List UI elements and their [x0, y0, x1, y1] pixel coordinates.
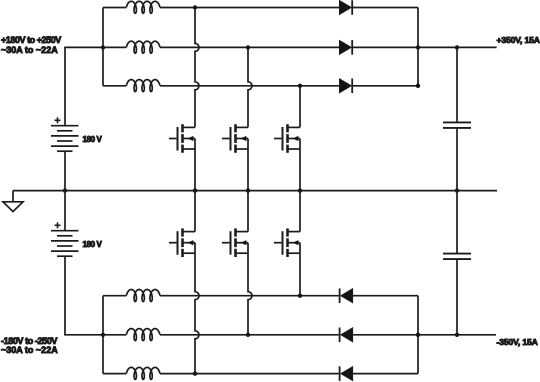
wire Q2 source to ground rail [247, 149, 249, 191]
wire diode D6 to -output bus [353, 373, 418, 375]
diode D4 [340, 288, 353, 303]
svg-text:~30A to ~22A: ~30A to ~22A [1, 45, 58, 55]
node switch column 3 / row 4 junction [298, 294, 302, 298]
transistor Q2 [222, 124, 248, 153]
battery B2 [51, 222, 79, 256]
wire ground rail to capacitor C2 [456, 191, 458, 254]
node switch column 1 / row 1 junction [193, 5, 197, 9]
wire Q3 source to ground rail [299, 149, 301, 191]
wire capacitor C2 to -rail [456, 259, 458, 335]
inductor L1 [126, 1, 159, 13]
wire diode D1 to output bus [352, 7, 418, 9]
node switch column 2 / row 5 junction [246, 333, 250, 337]
wire row 5 bus to inductor L5 [103, 334, 126, 336]
wire diode D3 to output bus [352, 85, 418, 87]
wire Q4 source drop (hops rows 4,5) [195, 253, 199, 373]
wire inductor L1 to diode D1 [160, 7, 340, 9]
wire ground rail to Q5 drain [247, 191, 249, 232]
wire inductor L4 to diode D4 [160, 295, 339, 297]
wire ground rail to Q4 drain [194, 191, 196, 232]
node bottom input bus / feed junction [101, 333, 105, 337]
wire diode D5 to -output bus [353, 334, 418, 336]
node +output bus row 3 junction [416, 84, 420, 88]
wire ground rail to battery B2 positive [64, 191, 66, 231]
wire row 4 bus to inductor L4 [103, 295, 126, 297]
wire left input bus (bottom) [102, 296, 104, 374]
wire -350V output lead [418, 334, 496, 336]
node switch column 3 / row 3 junction [298, 84, 302, 88]
wire inductor L5 to diode D5 [160, 334, 339, 336]
inductor L3 [126, 80, 159, 92]
inductor L4 [126, 290, 159, 302]
node -output bus row 5 junction [416, 333, 420, 337]
wire +rail to capacitor C1 [456, 47, 458, 122]
wire row 1 bus to inductor L1 [103, 7, 126, 9]
capacitor C2 [443, 254, 471, 260]
svg-text:+350V, 15A: +350V, 15A [497, 35, 540, 45]
node input bus / feed junction [101, 45, 105, 49]
diode D2 [340, 40, 353, 55]
node Q1 source on ground rail [193, 188, 197, 192]
node capacitor tap on ground rail [455, 188, 459, 192]
wire -output bus (vertical) [417, 296, 419, 374]
diode D3 [340, 79, 353, 94]
wire capacitor C1 to ground rail [456, 128, 458, 191]
wire inductor L6 to diode D6 [160, 373, 339, 375]
wire ground rail [13, 190, 497, 192]
wire left input bus (top) [102, 8, 104, 86]
wire battery B1 negative to ground rail [64, 151, 66, 190]
battery B1 [51, 117, 79, 151]
wire battery B2 negative to bottom bus [65, 256, 103, 335]
node Q3 source on ground rail [298, 188, 302, 192]
node Q2 source on ground rail [246, 188, 250, 192]
ground [12, 191, 14, 202]
transistor Q6 [274, 228, 300, 257]
wire diode D4 to -output bus [353, 295, 418, 297]
transistor Q3 [274, 124, 300, 153]
diode D1 [340, 0, 353, 15]
wire ground rail to Q6 drain [299, 191, 301, 232]
svg-text:+180V to +250V: +180V to +250V [1, 35, 61, 45]
wire drain drop to Q3 [299, 86, 301, 128]
transistor Q1 [169, 124, 195, 153]
diode D6 [340, 366, 353, 381]
svg-text:-350V, 15A: -350V, 15A [497, 337, 538, 347]
capacitor C1 [443, 122, 471, 128]
wire row 6 bus to inductor L6 [103, 373, 126, 375]
diode D5 [340, 328, 353, 343]
wire +350V output lead [418, 46, 497, 48]
transistor Q4 [169, 228, 195, 257]
inductor L5 [126, 329, 159, 341]
node battery tap on ground rail [63, 188, 67, 192]
node +output capacitor tap [455, 45, 459, 49]
svg-text:180 V: 180 V [83, 135, 103, 144]
node switch column 2 / row 2 junction [246, 45, 250, 49]
node +output bus row 2 junction [416, 45, 420, 49]
inductor L6 [126, 367, 159, 379]
wire row 2 bus to inductor L2 [103, 46, 126, 48]
wire +output bus (vertical) [417, 8, 419, 86]
wire inductor L3 to diode D3 [160, 85, 340, 87]
wire Q1 source to ground rail [194, 149, 196, 191]
node switch column 1 / row 6 junction [193, 371, 197, 375]
wire Q5 source drop (hop row 4) [248, 253, 252, 335]
node -output capacitor tap [455, 333, 459, 337]
wire drain drop to Q2 (hop row 3) [248, 47, 252, 127]
wire row 3 bus to inductor L3 [103, 85, 126, 87]
wire Q6 source drop [299, 253, 301, 296]
inductor L2 [126, 41, 159, 53]
wire input feed from battery B1 to bus [65, 47, 103, 125]
svg-text:180 V: 180 V [83, 240, 103, 249]
wire inductor L2 to diode D2 [160, 46, 340, 48]
wire diode D2 to output bus [352, 46, 418, 48]
svg-text:~30A to ~22A: ~30A to ~22A [1, 345, 58, 355]
wire drain drop to Q1 (hops rows 2,3) [195, 8, 199, 128]
transistor Q5 [222, 228, 248, 257]
